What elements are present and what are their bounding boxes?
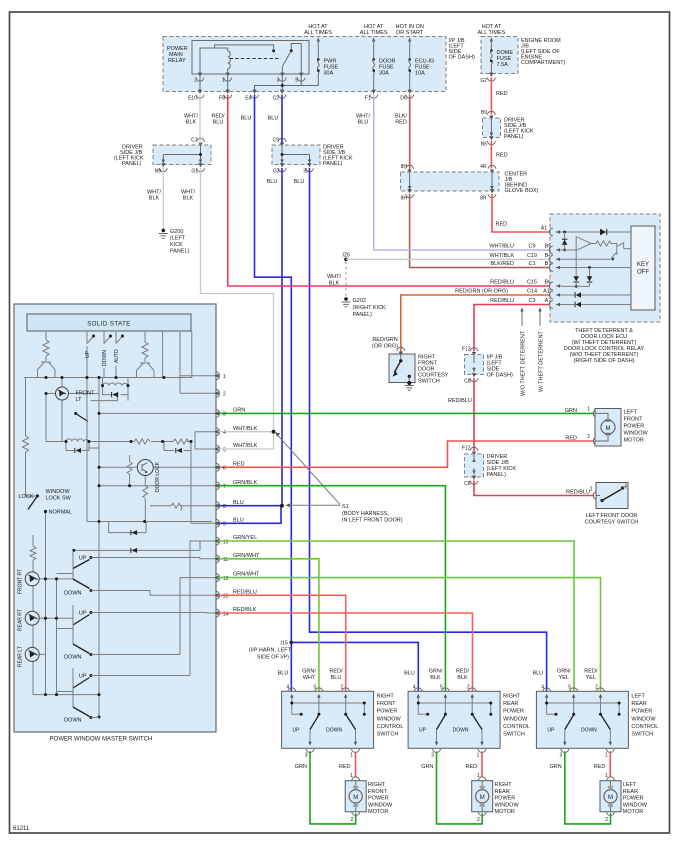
engine room J/B with DOME fuse <box>477 24 565 84</box>
svg-text:30A: 30A <box>379 71 389 77</box>
svg-text:C14: C14 <box>527 289 537 295</box>
wire BLU master pin 9 to node <box>218 507 281 524</box>
svg-text:E10: E10 <box>188 96 197 102</box>
svg-text:BLK: BLK <box>430 675 441 681</box>
wire BLU I5 to switch3 pin 4 <box>310 168 547 691</box>
wire GRN/YEL master pin 10 to switch3 pin 5 <box>218 541 574 691</box>
svg-text:F8: F8 <box>219 96 225 102</box>
svg-text:2: 2 <box>587 434 590 440</box>
svg-text:PANEL): PANEL) <box>504 134 524 140</box>
up/down/auto selector arms <box>87 336 123 344</box>
left front door courtesy switch <box>585 483 639 526</box>
svg-text:W/O THEFT DETERRENT: W/O THEFT DETERRENT <box>521 330 527 396</box>
svg-text:WHT/BLK: WHT/BLK <box>233 426 258 432</box>
svg-text:(I/P HARN, LEFT: (I/P HARN, LEFT <box>249 648 292 654</box>
svg-text:C2: C2 <box>273 96 280 102</box>
svg-text:RELAY: RELAY <box>168 58 186 64</box>
solid state box <box>27 314 191 331</box>
svg-text:8: 8 <box>223 504 226 510</box>
wire RED/GRN to theft ECU A18 and courtesy switch <box>401 295 549 352</box>
svg-text:OFF: OFF <box>637 270 649 276</box>
svg-text:BLU: BLU <box>268 116 279 122</box>
diode rows <box>109 522 147 533</box>
wire RED/BLU theft A7 to I/P J/B <box>474 305 549 352</box>
svg-text:61211: 61211 <box>13 826 30 832</box>
svg-text:C8: C8 <box>464 481 471 487</box>
svg-text:REAR LT: REAR LT <box>18 646 24 667</box>
svg-text:RED: RED <box>565 436 577 442</box>
svg-text:PANEL): PANEL) <box>170 249 190 255</box>
master up/down switch pair 2 <box>57 578 216 661</box>
I/P J/B top box (left side of dash) <box>163 37 475 92</box>
svg-text:KEY: KEY <box>637 262 649 268</box>
svg-text:SWITCH: SWITCH <box>418 379 440 385</box>
ground G200 <box>159 229 190 255</box>
svg-text:BLU: BLU <box>213 120 224 126</box>
svg-text:4: 4 <box>223 430 226 436</box>
svg-text:POWER: POWER <box>368 796 389 802</box>
I/P J/B (left side of dash) small box <box>462 347 513 385</box>
wire WHT/BLK master pin 4 node <box>218 431 274 433</box>
interior circuit <box>562 231 631 233</box>
svg-text:(OR ORG): (OR ORG) <box>372 344 398 350</box>
svg-text:WHT/BLU: WHT/BLU <box>489 244 514 250</box>
svg-text:MOTOR: MOTOR <box>623 809 643 815</box>
driver side J/B (left kick panel) small box <box>462 446 517 488</box>
resistor R2 <box>142 342 148 362</box>
svg-text:DOWN: DOWN <box>64 718 81 724</box>
svg-text:LEFT: LEFT <box>623 782 637 788</box>
wire BLU E4 via jog to I15 and switch1 pin 4 <box>255 95 292 692</box>
svg-text:10A: 10A <box>415 71 425 77</box>
svg-text:F1: F1 <box>365 96 371 102</box>
svg-text:D6: D6 <box>400 96 407 102</box>
svg-text:W/ THEFT DETERRENT: W/ THEFT DETERRENT <box>539 330 545 392</box>
bus row <box>24 377 192 379</box>
svg-text:BLU: BLU <box>241 116 252 122</box>
svg-text:5: 5 <box>223 447 226 453</box>
right rear power window control switch + motor <box>408 684 500 824</box>
coil block <box>66 442 99 451</box>
svg-text:WHT: WHT <box>303 675 316 681</box>
svg-text:PANEL): PANEL) <box>122 161 142 167</box>
svg-text:FRONT: FRONT <box>377 701 397 707</box>
svg-text:SOLID STATE: SOLID STATE <box>87 322 131 328</box>
svg-text:RED: RED <box>496 153 508 159</box>
svg-text:PANEL): PANEL) <box>487 472 507 478</box>
svg-text:A1: A1 <box>541 226 547 232</box>
svg-text:UP: UP <box>79 556 87 562</box>
svg-text:G1: G1 <box>191 169 198 175</box>
svg-text:GRN/: GRN/ <box>429 669 443 675</box>
svg-text:6: 6 <box>223 466 226 472</box>
wire WHT/BLK E10 down <box>199 95 201 144</box>
svg-text:BLU: BLU <box>404 671 415 677</box>
svg-text:SWITCH: SWITCH <box>503 732 525 738</box>
svg-text:GRN: GRN <box>565 408 577 414</box>
power main relay <box>167 41 318 92</box>
W/O and W/ theft deterrent arrows <box>521 310 523 326</box>
wire RED to center J/B <box>490 141 492 169</box>
svg-text:MOTOR: MOTOR <box>368 809 388 815</box>
svg-text:RED/: RED/ <box>329 669 343 675</box>
svg-text:BLU: BLU <box>294 179 305 185</box>
wire RED center J/B to theft ECU A1 <box>492 194 549 232</box>
front lt indicator <box>61 378 63 442</box>
wire WHT/BLK G1 to master switch pins 4/5 <box>201 168 274 432</box>
svg-text:DOWN: DOWN <box>102 350 108 366</box>
svg-text:PANEL): PANEL) <box>353 312 373 318</box>
svg-text:PANEL): PANEL) <box>323 161 343 167</box>
svg-text:1: 1 <box>223 374 226 380</box>
svg-text:RED/: RED/ <box>456 669 470 675</box>
svg-text:POWER: POWER <box>503 709 524 715</box>
svg-text:BLU: BLU <box>267 179 278 185</box>
wire WHT/BLK master pin 5 <box>218 433 274 449</box>
svg-text:DOOR LOCK: DOOR LOCK <box>155 461 161 492</box>
wire RED/BLK master pin 14 to switch2 pin 2 <box>218 613 473 691</box>
left rear power window control switch + motor <box>536 684 628 824</box>
svg-text:RED/GRN (OR ORG): RED/GRN (OR ORG) <box>455 289 508 295</box>
svg-text:C19: C19 <box>527 253 537 259</box>
svg-text:WINDOW: WINDOW <box>495 802 520 808</box>
connector F8 <box>224 90 232 99</box>
svg-text:G200: G200 <box>170 229 183 235</box>
wire WHT/BLU F1 to theft ECU B9 <box>374 95 549 251</box>
svg-text:I5: I5 <box>303 169 307 175</box>
central column <box>98 378 100 718</box>
wire RED/BLU to left front door courtesy switch <box>474 481 594 496</box>
svg-text:WINDOW: WINDOW <box>631 716 656 722</box>
svg-text:BLK: BLK <box>149 196 160 202</box>
svg-text:LT: LT <box>76 397 83 403</box>
wire BLU C2/G3 to master pin 8 node <box>218 95 282 506</box>
svg-text:RED/BLU: RED/BLU <box>448 398 472 404</box>
svg-text:BLK: BLK <box>186 120 197 126</box>
wire GRN/WHT master pin 12 to switch3 pin 2 <box>218 578 601 691</box>
resistor row right <box>89 439 191 523</box>
svg-text:FRONT: FRONT <box>76 391 96 397</box>
svg-text:I15: I15 <box>280 641 288 647</box>
connector C2 <box>278 90 286 99</box>
svg-text:RIGHT: RIGHT <box>377 694 395 700</box>
circle columns <box>30 535 99 695</box>
svg-text:REAR: REAR <box>495 789 510 795</box>
svg-text:(BODY HARNESS,: (BODY HARNESS, <box>342 511 389 517</box>
svg-text:LEFT: LEFT <box>624 410 638 416</box>
svg-text:YEL: YEL <box>586 675 596 681</box>
svg-text:REAR RT: REAR RT <box>18 609 24 631</box>
svg-text:C15: C15 <box>527 280 537 286</box>
svg-text:LEFT: LEFT <box>631 694 645 700</box>
svg-text:OF DASH): OF DASH) <box>449 55 475 61</box>
svg-text:FRONT: FRONT <box>624 417 644 423</box>
wire RED/BLU F8 to theft ECU B6 <box>228 95 549 287</box>
svg-text:POWER: POWER <box>631 709 652 715</box>
svg-text:REAR: REAR <box>631 701 646 707</box>
wire RED master pin 6 to left front motor <box>218 441 594 467</box>
wire RED/BLU master pin 13 to switch1 pin 2 <box>218 595 346 691</box>
svg-text:CONTROL: CONTROL <box>631 724 658 730</box>
svg-text:N9: N9 <box>155 169 162 175</box>
svg-text:RIGHT: RIGHT <box>368 782 386 788</box>
svg-text:POWER: POWER <box>624 424 645 430</box>
indicator LED rear rt <box>25 611 39 625</box>
pin stubs 1-9 <box>180 376 215 394</box>
svg-text:RED/GRN: RED/GRN <box>372 337 397 343</box>
svg-text:RED/BLU: RED/BLU <box>490 298 514 304</box>
wire RED/BLU to driver side J/B <box>473 378 475 451</box>
long bus y=521.5 <box>87 378 212 522</box>
driver side J/B (left kick panel) box 2 <box>267 138 353 186</box>
svg-text:WINDOW: WINDOW <box>368 802 393 808</box>
svg-text:4R: 4R <box>480 164 487 170</box>
svg-text:UP: UP <box>79 674 87 680</box>
svg-text:COURTESY SWITCH: COURTESY SWITCH <box>585 520 639 526</box>
door lock transistor circle <box>137 460 153 476</box>
svg-text:POWER: POWER <box>495 796 516 802</box>
svg-text:C8: C8 <box>464 379 471 385</box>
svg-text:2: 2 <box>223 392 226 398</box>
svg-text:GRN: GRN <box>233 408 245 414</box>
wire RED dome to driver side J/B <box>490 78 492 115</box>
svg-text:LOCK: LOCK <box>19 494 34 500</box>
relay pin wires to connectors <box>199 74 201 90</box>
svg-text:WINDOW: WINDOW <box>623 802 648 808</box>
svg-text:30A: 30A <box>324 71 334 77</box>
resistor R1 <box>43 340 49 361</box>
svg-text:WINDOW: WINDOW <box>46 489 71 495</box>
right front door courtesy switch <box>372 337 449 390</box>
transistor T2 <box>137 363 155 378</box>
left front power window motor <box>593 409 648 447</box>
svg-text:BLU: BLU <box>278 671 289 677</box>
svg-text:LOCK SW: LOCK SW <box>46 496 72 502</box>
wire GRN/BLK master pin 7 to switch2 pin 5 <box>218 486 445 691</box>
wire GRN/WHT master pin 11 to switch1 pin 5 <box>218 559 319 691</box>
svg-text:RED: RED <box>233 462 245 468</box>
svg-text:WHT/: WHT/ <box>327 274 342 280</box>
node I25 and ground G202 <box>327 253 386 319</box>
svg-text:RED/BLK: RED/BLK <box>233 607 257 613</box>
svg-text:AUTO: AUTO <box>114 349 120 363</box>
svg-text:BLK: BLK <box>457 675 468 681</box>
driver side J/B (small, right) <box>481 110 534 148</box>
svg-text:F12: F12 <box>462 446 471 452</box>
pin arcs on left edge <box>549 228 553 236</box>
svg-text:(RIGHT SIDE OF DASH): (RIGHT SIDE OF DASH) <box>573 358 634 364</box>
svg-text:MOTOR: MOTOR <box>624 438 644 444</box>
svg-text:WHT/BLK: WHT/BLK <box>233 443 258 449</box>
svg-text:CONTROL: CONTROL <box>503 724 530 730</box>
svg-text:GRN/YEL: GRN/YEL <box>233 535 257 541</box>
connector E4 <box>251 90 259 99</box>
svg-text:OR START: OR START <box>396 30 424 36</box>
master switch pin connectors 1-14 <box>214 372 228 617</box>
transistor T1 <box>38 356 56 378</box>
svg-text:F12: F12 <box>462 347 471 353</box>
front lt LED circle <box>56 387 69 400</box>
svg-text:GRN/WHT: GRN/WHT <box>233 572 260 578</box>
svg-text:1: 1 <box>587 407 590 413</box>
PWR fuse 30A <box>304 24 338 77</box>
svg-text:BLU: BLU <box>331 675 342 681</box>
svg-text:RED/BLU: RED/BLU <box>233 589 257 595</box>
connector F1 <box>370 90 378 99</box>
svg-text:7: 7 <box>223 484 226 490</box>
wire WHT/BLK I25 to theft ECU B4 <box>346 258 549 260</box>
diodes in master switch <box>112 392 118 397</box>
connector E10 <box>196 90 204 99</box>
svg-text:(LEFT: (LEFT <box>170 236 186 242</box>
svg-text:WINDOW: WINDOW <box>624 431 649 437</box>
svg-text:RIGHT: RIGHT <box>503 694 521 700</box>
wire BLK/RED D6 to center J/B to theft ECU B7 <box>410 95 549 268</box>
relay terminal cups <box>196 73 204 82</box>
node I15 <box>290 641 294 645</box>
svg-text:BLK: BLK <box>183 196 194 202</box>
theft deterrent & door lock ECU box <box>549 214 660 322</box>
svg-text:8R: 8R <box>480 196 487 202</box>
interior gray circuitry <box>23 331 216 717</box>
svg-text:RED: RED <box>496 222 508 228</box>
svg-text:GLOVE BOX): GLOVE BOX) <box>505 188 539 194</box>
svg-text:BLU: BLU <box>358 120 369 126</box>
svg-text:ALL TIMES: ALL TIMES <box>477 30 505 36</box>
DOOR fuse 30A <box>360 24 396 90</box>
connector D6 <box>406 90 414 99</box>
svg-text:SWITCH: SWITCH <box>631 732 653 738</box>
svg-text:KICK: KICK <box>170 242 183 248</box>
master up/down switch pair 1 <box>57 550 216 596</box>
svg-text:BLK: BLK <box>329 281 340 287</box>
svg-text:WHT/BLK: WHT/BLK <box>490 253 515 259</box>
svg-text:BLU: BLU <box>233 517 244 523</box>
svg-text:S1: S1 <box>342 504 349 510</box>
indicator LED rear lt <box>25 647 39 661</box>
svg-text:FRONT: FRONT <box>368 789 388 795</box>
svg-text:POWER WINDOW MASTER SWITCH: POWER WINDOW MASTER SWITCH <box>50 737 153 743</box>
master up/down switch pair 3 <box>57 541 216 724</box>
svg-text:B9: B9 <box>481 110 487 116</box>
svg-text:9: 9 <box>223 522 226 528</box>
svg-text:RIGHT: RIGHT <box>495 782 513 788</box>
svg-text:BLK/RED: BLK/RED <box>490 261 514 267</box>
svg-text:GRN/: GRN/ <box>302 669 316 675</box>
svg-text:WINDOW: WINDOW <box>377 716 402 722</box>
svg-text:7.5A: 7.5A <box>497 62 509 68</box>
indicator LED front rt <box>25 572 39 586</box>
wire GRN master pin 3 to left front motor <box>218 412 594 414</box>
svg-text:NORMAL: NORMAL <box>49 510 73 516</box>
svg-text:G202: G202 <box>353 298 366 304</box>
svg-text:RED/BLU: RED/BLU <box>566 490 590 496</box>
dl resistors <box>127 455 132 486</box>
svg-text:G3: G3 <box>273 169 280 175</box>
svg-text:GRN/BLK: GRN/BLK <box>233 480 257 486</box>
svg-text:REAR: REAR <box>623 789 638 795</box>
center J/B (behind glove box) <box>401 164 539 202</box>
right front power window control switch + motor <box>282 684 374 824</box>
svg-text:UP: UP <box>79 611 87 617</box>
svg-text:YEL: YEL <box>559 675 569 681</box>
svg-text:WINDOW: WINDOW <box>503 716 528 722</box>
wire WHT/BLK N9 to ground G200 <box>162 168 164 230</box>
svg-text:MOTOR: MOTOR <box>495 809 515 815</box>
svg-text:ALL TIMES: ALL TIMES <box>304 30 332 36</box>
junction dots <box>36 335 193 719</box>
svg-text:C1: C1 <box>528 261 535 267</box>
svg-text:CONTROL: CONTROL <box>377 724 404 730</box>
svg-text:SWITCH: SWITCH <box>377 732 399 738</box>
svg-text:FRONT RT: FRONT RT <box>18 569 24 594</box>
svg-text:RED: RED <box>395 120 407 126</box>
S1 splice label and leaders <box>275 432 403 523</box>
svg-text:BLU: BLU <box>532 671 543 677</box>
svg-text:RED: RED <box>496 91 508 97</box>
svg-text:COMPARTMENT): COMPARTMENT) <box>521 60 566 66</box>
svg-text:RED/BLU: RED/BLU <box>490 280 514 286</box>
svg-text:3: 3 <box>223 412 226 418</box>
svg-text:DOWN: DOWN <box>64 591 81 597</box>
wire BLU I15 to switch2 pin 4 <box>291 642 418 691</box>
svg-text:POWER: POWER <box>623 796 644 802</box>
svg-text:C9: C9 <box>528 244 535 250</box>
svg-text:M: M <box>606 426 611 432</box>
svg-text:GRN/WHT: GRN/WHT <box>233 553 260 559</box>
svg-text:BLU: BLU <box>233 500 244 506</box>
svg-text:LEFT FRONT DOOR: LEFT FRONT DOOR <box>586 513 638 519</box>
svg-text:(RIGHT KICK: (RIGHT KICK <box>353 305 387 311</box>
svg-text:E4: E4 <box>245 96 251 102</box>
svg-text:1: 1 <box>590 487 593 493</box>
svg-text:DOWN: DOWN <box>64 655 81 661</box>
svg-text:8H: 8H <box>401 196 408 202</box>
svg-text:N5: N5 <box>481 142 488 148</box>
svg-text:POWER: POWER <box>377 709 398 715</box>
svg-text:UP: UP <box>85 350 91 358</box>
svg-text:SIDE OF I/P): SIDE OF I/P) <box>257 655 289 661</box>
svg-text:REAR: REAR <box>503 701 518 707</box>
svg-text:ALL TIMES: ALL TIMES <box>360 30 388 36</box>
svg-text:IN LEFT FRONT DOOR): IN LEFT FRONT DOOR) <box>342 518 403 524</box>
svg-text:GRN/: GRN/ <box>557 669 571 675</box>
ECU-IG fuse 10A <box>396 24 435 90</box>
left wall column w/ resistor and lock switch <box>23 378 36 497</box>
svg-text:C3: C3 <box>528 298 535 304</box>
driver side J/B (left kick panel) box 1 <box>114 138 211 175</box>
svg-text:G2: G2 <box>480 78 487 84</box>
droppers from solid state <box>46 331 192 393</box>
svg-text:RED/: RED/ <box>584 669 598 675</box>
svg-text:OF DASH): OF DASH) <box>487 373 513 379</box>
